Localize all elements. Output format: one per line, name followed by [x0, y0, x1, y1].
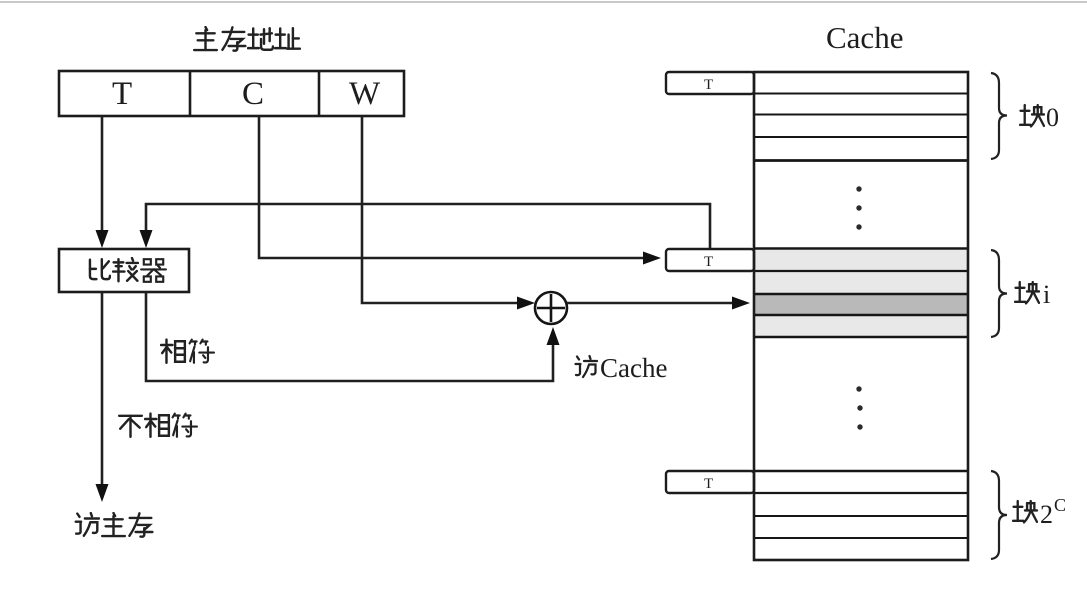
ellipsis dots lower	[856, 386, 862, 429]
wire adder to cache block i data row	[567, 297, 750, 310]
svg-text:i: i	[1043, 280, 1050, 309]
svg-text:Cache: Cache	[826, 20, 903, 55]
tag box T block 0	[666, 72, 754, 94]
cache row lines block 2^C	[754, 471, 968, 538]
label 块i	[1015, 280, 1050, 309]
brace block 2^C	[991, 471, 1007, 559]
ellipsis dots upper	[856, 186, 861, 229]
label 访Cache	[576, 353, 668, 383]
svg-text:Cache: Cache	[600, 353, 667, 383]
label 不相符 (no match)	[119, 414, 197, 437]
brace block 0	[991, 73, 1007, 159]
svg-text:2: 2	[1040, 500, 1053, 529]
svg-text:T: T	[704, 476, 713, 492]
svg-text:T: T	[112, 76, 132, 112]
top border line	[0, 1, 1087, 3]
brace block i	[991, 250, 1007, 337]
svg-text:T: T	[704, 254, 713, 270]
wire W field to adder	[362, 116, 535, 310]
svg-text:C: C	[1054, 495, 1066, 515]
title 主存地址 (main memory address)	[194, 27, 300, 51]
wire C field to cache T row (block i)	[259, 116, 661, 265]
svg-text:T: T	[704, 77, 713, 93]
svg-text:W: W	[349, 76, 381, 112]
label 块0	[1020, 103, 1059, 132]
tag box T block i	[666, 249, 754, 271]
cache row lines block 0	[754, 94, 968, 161]
comparator box 比较器	[59, 249, 189, 292]
tag box T block 2^C	[666, 471, 754, 493]
svg-text:C: C	[242, 76, 264, 112]
label 访主存 (access main memory)	[76, 513, 153, 537]
adder circle (circle-plus)	[535, 292, 567, 324]
wire match (相符) from comparator to adder	[146, 292, 560, 381]
wire T field to comparator	[96, 116, 109, 248]
cache row lines block i	[754, 249, 968, 338]
wire tag readout from cache T field to comparator	[140, 204, 711, 250]
svg-text:0: 0	[1046, 103, 1059, 132]
wire no-match from comparator down	[96, 292, 109, 502]
label 相符 (match)	[161, 340, 214, 363]
cache block i shaded rows	[755, 250, 967, 337]
label 块2^C	[1013, 495, 1066, 529]
cache main rectangle	[754, 72, 968, 560]
address register box T|C|W	[59, 71, 404, 116]
